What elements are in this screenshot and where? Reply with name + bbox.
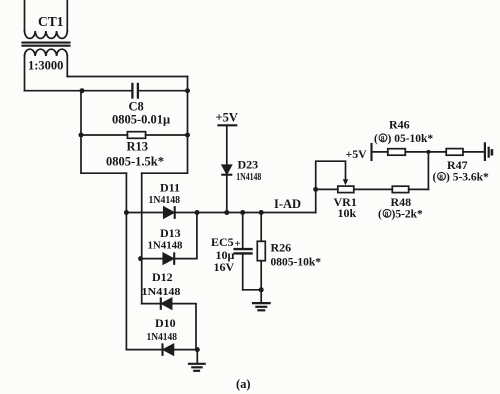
svg-text:+5V: +5V xyxy=(216,111,238,125)
svg-text:0805-1.5k*: 0805-1.5k* xyxy=(106,155,164,169)
wire R13 loop right xyxy=(142,135,188,173)
node dot C8 row left xyxy=(80,88,85,93)
svg-text:(a): (a) xyxy=(236,377,251,391)
label (8)5-2k* xyxy=(378,209,423,221)
svg-text:16V: 16V xyxy=(214,260,235,274)
wire vertical x141.7 xyxy=(141,173,143,303)
capacitor EC5 xyxy=(235,213,262,290)
svg-text:0805-10k*: 0805-10k* xyxy=(271,257,322,269)
node dot D10 ground xyxy=(195,347,200,352)
wire D12 row xyxy=(142,304,196,350)
ground G2 xyxy=(253,303,270,310)
node dot R13 left xyxy=(79,133,84,138)
svg-text:I-AD: I-AD xyxy=(274,197,301,211)
svg-text:) 5-3.6k*: ) 5-3.6k* xyxy=(446,172,489,184)
node dot C8 row right xyxy=(185,88,190,93)
wire vertical x126.4 xyxy=(125,173,127,349)
label (8)05-10k* xyxy=(374,133,433,145)
node dot R26 join xyxy=(259,210,264,215)
ground G3 (rotated, right edge) xyxy=(485,143,492,160)
power +5V (R46) xyxy=(372,144,388,160)
svg-text:(: ( xyxy=(433,172,437,184)
wire secondary right down xyxy=(66,56,68,77)
svg-text:D23: D23 xyxy=(238,158,259,172)
transformer CT1 xyxy=(23,0,70,56)
wire top row xyxy=(67,76,187,78)
svg-text:1:3000: 1:3000 xyxy=(28,59,63,73)
svg-text:) 05-10k*: ) 05-10k* xyxy=(388,133,434,145)
svg-text:0805-0.01μ: 0805-0.01μ xyxy=(112,113,170,127)
svg-text:D12: D12 xyxy=(152,270,173,284)
node dot VR1 left xyxy=(313,187,318,192)
node dot D23 join xyxy=(224,210,229,215)
node dot EC5-R26 join xyxy=(259,287,264,292)
svg-text:+5V: +5V xyxy=(346,147,368,161)
wire R13 loop left xyxy=(81,135,126,173)
svg-text:)5-2k*: )5-2k* xyxy=(392,209,424,221)
svg-text:(: ( xyxy=(378,209,382,221)
svg-text:D13: D13 xyxy=(160,226,181,240)
node dot R13 right xyxy=(185,133,190,138)
svg-text:CT1: CT1 xyxy=(38,14,64,29)
svg-text:1N4148: 1N4148 xyxy=(148,241,183,252)
svg-text:1N4148: 1N4148 xyxy=(149,195,181,206)
node dot EC5 join xyxy=(240,210,245,215)
svg-text:(: ( xyxy=(374,133,378,145)
VR1 wiper arrow xyxy=(343,179,348,185)
svg-text:R47: R47 xyxy=(447,158,468,172)
wire corner to VR1 row xyxy=(315,189,317,212)
wire D10 row xyxy=(126,349,197,351)
node dot D13 anode xyxy=(138,256,143,261)
wire right vertical x187.5 xyxy=(187,77,189,136)
wire D11 row / I-AD row xyxy=(126,212,315,214)
resistor R13 xyxy=(81,134,188,136)
svg-text:1N4148: 1N4148 xyxy=(142,287,181,298)
diode D11 xyxy=(164,207,175,218)
svg-text:C8: C8 xyxy=(129,100,144,114)
wire C8 row xyxy=(25,90,188,92)
wire VR1 wiper loop xyxy=(316,161,346,189)
resistor R26 xyxy=(257,213,265,302)
svg-text:8: 8 xyxy=(385,209,389,218)
ground G1 xyxy=(189,350,205,371)
node dot D11 anode xyxy=(124,210,129,215)
svg-text:8: 8 xyxy=(381,134,385,143)
wire D13 row xyxy=(141,213,197,259)
wire vertical x81 xyxy=(80,91,82,135)
capacitor C8 xyxy=(132,84,138,98)
svg-text:R48: R48 xyxy=(391,195,412,209)
label (8)5-3.6k* xyxy=(433,172,490,184)
power +5V (D23) xyxy=(218,125,236,212)
resistor R46 xyxy=(388,149,446,156)
svg-text:8: 8 xyxy=(439,172,443,181)
svg-text:R13: R13 xyxy=(127,140,149,154)
diode D13 xyxy=(163,253,174,263)
node dot D13 join xyxy=(195,210,200,215)
potentiometer VR1 xyxy=(316,186,393,193)
resistor R48 xyxy=(392,152,428,193)
svg-text:+: + xyxy=(235,238,241,250)
diode D23 xyxy=(222,165,231,175)
svg-text:1N4148: 1N4148 xyxy=(147,332,178,343)
svg-text:1N4148: 1N4148 xyxy=(236,172,261,183)
svg-text:D10: D10 xyxy=(155,316,176,330)
svg-text:10k: 10k xyxy=(338,206,357,220)
svg-text:R26: R26 xyxy=(271,241,292,255)
svg-text:D11: D11 xyxy=(160,180,180,194)
resistor R47 xyxy=(446,149,483,156)
wire secondary left down xyxy=(24,56,26,91)
svg-text:R46: R46 xyxy=(389,118,410,132)
node dot R46-R47 junction xyxy=(426,150,430,154)
diode D10 xyxy=(163,344,174,354)
diode D12 xyxy=(161,298,172,308)
